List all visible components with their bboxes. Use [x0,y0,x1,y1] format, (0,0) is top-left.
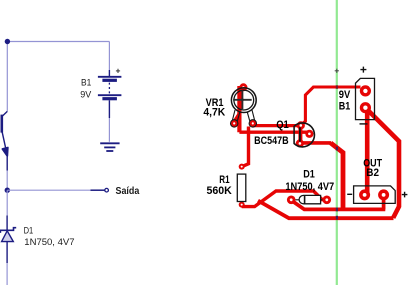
battery B1 dashed cells [108,83,110,94]
battery B1 bottom lead [108,100,110,118]
wire to Saida [7,189,90,191]
trace VR1 wiper strip [237,86,241,132]
diode D1 zener cathode bar [0,228,16,233]
wire bottom [6,263,8,285]
svg-text:B2: B2 [366,168,379,179]
svg-text:4,7K: 4,7K [203,107,225,118]
trace R1 bottom to D1 right pad [242,191,327,207]
outline R1 body [237,174,246,201]
trace B1 top to Q1 top (9V) [301,87,361,125]
wire emitter to node [6,171,8,191]
outline D1 body [299,195,321,203]
outline B1 connector [356,78,375,119]
wire battery top [108,42,110,71]
B1 minus mark [360,123,368,125]
pad R1 bottom [239,202,245,208]
crossing blob railB/green [336,216,338,220]
trace rail A D1 left to B2 right [291,200,385,209]
pad Q1 middle [305,130,313,138]
B2 minus mark [347,193,352,195]
pad B2 left [359,189,370,200]
D1 cathode band [304,195,306,203]
outline B2 connector [354,186,396,204]
B1 plus mark [360,67,366,73]
transistor Q base bar [0,115,3,133]
terminal circle Saida [105,188,109,192]
transistor Q emitter lead lower [6,155,8,171]
svg-text:Saída: Saída [116,186,140,198]
transistor Q emitter lead [2,132,7,154]
svg-text:560K: 560K [207,185,233,197]
trace drop to R1 top [242,127,249,167]
svg-text:D1: D1 [303,169,315,181]
svg-text:D1: D1 [24,225,34,236]
diode D1 anode lead [6,242,8,263]
B2 plus mark [402,192,408,198]
pad VR1 top [239,83,247,91]
wire node to D1 [6,190,8,215]
trace wiper to left leg jog [234,114,239,122]
pad holes [242,86,244,88]
pad R1 top [239,164,245,170]
battery B1 plate long 2 [98,94,122,96]
terminal lead Saida [91,189,105,191]
diode D1 cathode lead [6,216,8,230]
VR1 leg right outline [247,110,254,121]
svg-text:9V: 9V [339,89,351,101]
VR1 screwdriver cross [233,91,252,110]
outline VR1 outer circle [231,88,256,113]
trace Q1 internal strip [298,125,302,143]
trace rail B bottom [258,201,394,219]
battery plus sign [116,69,120,73]
Q1 internal bar [299,127,301,141]
pad D1 left [287,196,296,205]
wire top horizontal [7,41,109,43]
VR1 pad rings black [231,120,238,127]
outline Q1 D-shape [294,123,314,147]
crossing blob diag/green [336,147,338,151]
battery B1 plate short 2 [102,97,117,100]
pad Q1 top [297,121,305,129]
grid origin marker [335,69,339,73]
trace B1 bottom to B2 left vertical [365,108,370,194]
trace B1 bottom diagonal to right rail [366,108,399,218]
svg-text:Q1: Q1 [276,120,289,132]
ground symbol [100,143,119,151]
pad VR1 leg right [249,120,256,127]
crossing blob trace/green T1 [336,85,338,89]
trace Q1 bottom pad to right [300,141,331,145]
transistor Q emitter arrow [2,148,7,156]
wire battery to ground [108,118,110,142]
svg-text:R1: R1 [219,173,229,185]
svg-text:B1: B1 [81,77,91,87]
trace H1 VR1 right to Q1 top pad [253,124,301,127]
VR1 leg left outline [232,110,239,121]
D1 leads [295,199,322,201]
node junction dot output [5,188,10,193]
pad VR1 leg left [231,120,238,127]
pad B2 right [378,189,389,200]
crossing blob railA/green [336,208,338,212]
diode D1 triangle [2,231,14,242]
pad B1 bottom [360,102,371,113]
wire left vertical [6,42,8,112]
grid cursor line (green) [336,0,338,285]
svg-text:1N750, 4V7: 1N750, 4V7 [24,237,74,248]
svg-text:1N750, 4V7: 1N750, 4V7 [285,181,334,193]
pad D1 right [323,196,332,205]
transistor Q collector lead [2,111,7,116]
node junction dot top-left [5,39,10,44]
battery B1 plate long 1 [98,76,122,78]
trace H2 wiper to Q1 middle pad [239,130,309,133]
svg-text:9V: 9V [80,89,91,99]
trace B2 right pad stub [382,195,386,209]
outline VR1 inner circle [234,90,254,110]
VR1 cross center dot [241,98,244,101]
svg-text:BC547B: BC547B [254,135,289,147]
pad Q1 bottom [296,139,304,147]
trace diagonal+vertical to rail A [331,143,343,208]
battery B1 plate short 1 [102,79,117,82]
pad B1 top [360,85,371,96]
svg-text:B1: B1 [339,101,351,113]
battery B1 top lead [108,70,110,76]
